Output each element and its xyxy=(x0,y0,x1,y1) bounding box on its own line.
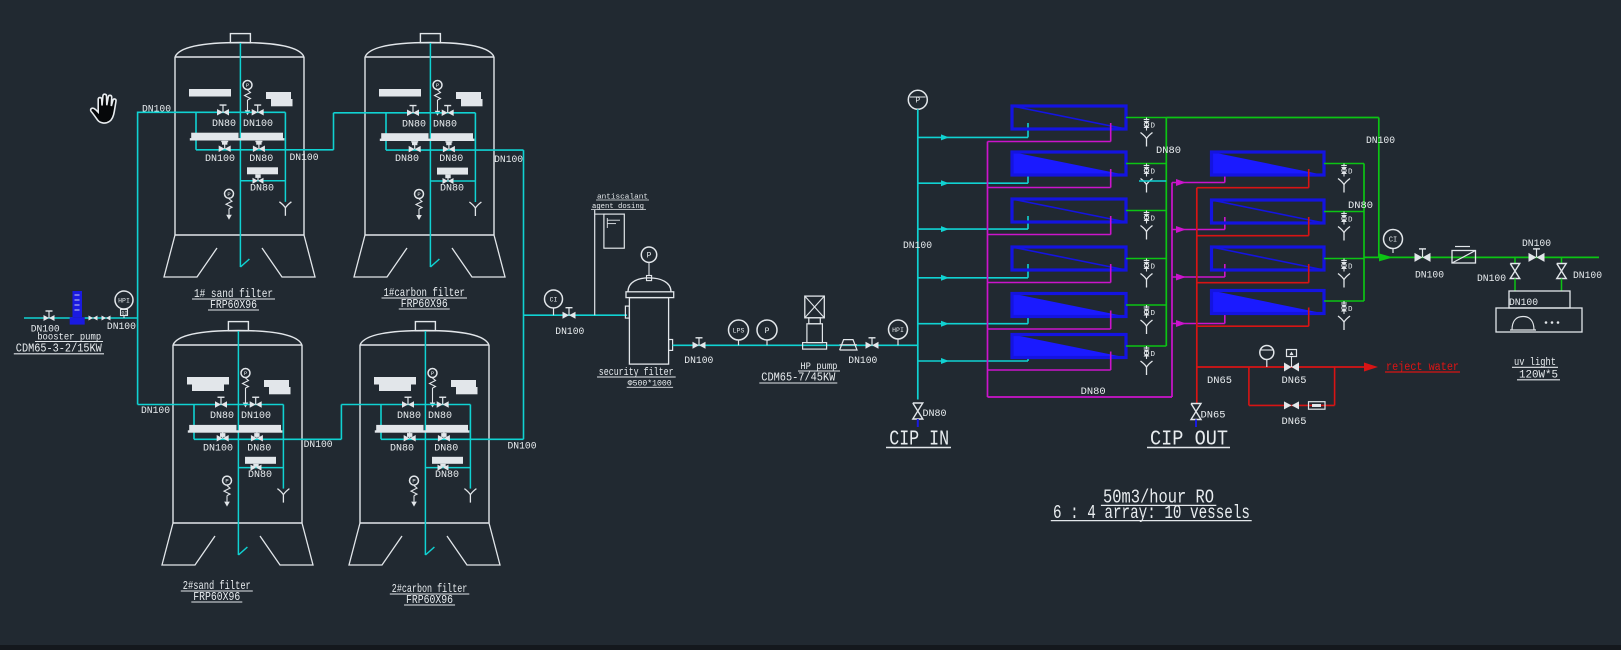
tank T2 shell xyxy=(420,34,440,43)
svg-text:HPI: HPI xyxy=(892,327,904,334)
tank T1 center pipe and drain xyxy=(239,43,241,267)
svg-text:LPS: LPS xyxy=(733,327,745,334)
tank T1 inlet stub xyxy=(138,111,196,113)
svg-text:DN80: DN80 xyxy=(428,411,452,422)
tank T2 inlet valve A xyxy=(407,110,413,117)
svg-text:DN80: DN80 xyxy=(1348,201,1373,212)
tank T3 bottom gauge xyxy=(223,476,232,485)
tank T1 lower line and valve xyxy=(241,180,286,182)
svg-text:DN80: DN80 xyxy=(434,443,458,454)
tank T2 center pipe and drain xyxy=(429,43,431,267)
svg-text:P: P xyxy=(227,191,230,198)
svg-text:D: D xyxy=(1151,351,1156,359)
tank T4 legs xyxy=(349,523,402,565)
booster pump P1 xyxy=(73,291,83,317)
svg-text:DN80: DN80 xyxy=(390,443,414,454)
tank T4 lower line and valve xyxy=(426,467,471,469)
tank T4 bottom gauge xyxy=(410,476,419,485)
dosing device xyxy=(604,214,624,248)
tank T4 outlet valve B xyxy=(438,435,444,442)
svg-text:DN100: DN100 xyxy=(1573,271,1602,282)
svg-text:P: P xyxy=(915,97,920,106)
uv feed valve left xyxy=(1510,264,1520,279)
tank T1 bottom gauge xyxy=(225,189,234,198)
magenta stage1 concentrate manifold xyxy=(987,142,989,398)
tank T2 outlet valve B xyxy=(443,146,449,153)
stage2 concentrate wrap R3 xyxy=(1308,264,1310,283)
gauge CI filter inlet xyxy=(545,290,563,308)
gauge P filter top xyxy=(641,247,656,262)
tank T2 legs xyxy=(354,235,407,277)
tank T1 distributor bars xyxy=(191,133,238,140)
bypass valve DN65 xyxy=(1284,401,1292,409)
tank T4 top gauge xyxy=(428,369,437,378)
tank T1 top gauge xyxy=(243,81,252,90)
tank T4 upper internals xyxy=(374,377,416,385)
RO vessel R1 xyxy=(1212,152,1325,175)
permeate stub L2 xyxy=(1126,163,1166,165)
svg-text:DN80: DN80 xyxy=(923,409,947,420)
svg-text:DN80: DN80 xyxy=(250,183,274,194)
tank T2 inlet valve B xyxy=(442,110,448,117)
valve DN100 top right xyxy=(1529,253,1537,262)
pipe T2 outlet to center header xyxy=(494,149,524,151)
svg-text:CI: CI xyxy=(1389,237,1397,245)
svg-text:D: D xyxy=(1348,306,1353,314)
CIP OUT valve xyxy=(1191,404,1201,420)
discharge valve xyxy=(102,316,107,321)
svg-text:P: P xyxy=(246,82,249,89)
svg-text:D: D xyxy=(1151,123,1156,131)
permeate manifold stage1 xyxy=(1165,118,1167,347)
hand cursor xyxy=(91,94,116,123)
feed stub 3 xyxy=(918,228,1028,230)
concentrate wrap L4 xyxy=(1110,264,1112,283)
svg-text:D: D xyxy=(1151,310,1156,318)
tank T2 distributor bars xyxy=(381,133,428,140)
tank T2 lower bar xyxy=(437,168,468,175)
svg-text:DN80: DN80 xyxy=(1156,146,1181,157)
RO vessel L5 xyxy=(1012,294,1126,317)
svg-text:P: P xyxy=(412,478,415,485)
sampling valve R1 xyxy=(1343,164,1345,167)
svg-text:P: P xyxy=(431,370,434,377)
pump check valve xyxy=(840,340,857,350)
tank T2 inlet loop piping xyxy=(386,112,475,114)
tank T4 inlet valve B xyxy=(437,401,443,408)
reject manifold vertical xyxy=(1196,188,1198,403)
flow indicator xyxy=(1452,251,1476,264)
svg-text:DN100: DN100 xyxy=(1366,136,1395,147)
svg-text:CI: CI xyxy=(550,296,558,303)
svg-text:DN100: DN100 xyxy=(290,153,319,164)
stage2 feed arrow 1 xyxy=(1172,182,1225,184)
uv branch left drop xyxy=(1514,257,1516,263)
tank T2 outlet valve A xyxy=(409,146,415,153)
svg-text:DN80: DN80 xyxy=(433,119,457,130)
svg-text:DN65: DN65 xyxy=(1207,376,1232,387)
discharge check valve xyxy=(89,316,94,321)
feed suction pipe xyxy=(24,317,73,319)
tank T3 distributor bars xyxy=(189,425,236,432)
tank T1 vent Y xyxy=(279,202,291,208)
tank T1 inlet valve A xyxy=(217,109,223,116)
permeate stub L4 xyxy=(1126,258,1166,260)
reject main line xyxy=(1197,366,1364,368)
reject control valve DN65 xyxy=(1284,363,1292,372)
concentrate wrap L3 xyxy=(1110,216,1112,235)
discharge pipe to riser xyxy=(85,317,138,319)
concentrate wrap L6 xyxy=(1110,352,1112,371)
svg-text:DN100: DN100 xyxy=(241,411,271,422)
tank T1 inlet loop piping xyxy=(196,111,285,113)
svg-text:DN100: DN100 xyxy=(142,105,171,116)
feed riser manifold xyxy=(137,112,139,405)
svg-text:P: P xyxy=(225,478,228,485)
tank T4 inlet loop piping xyxy=(381,404,470,406)
tank T2 top gauge xyxy=(433,81,442,90)
stage2 concentrate wrap R4 xyxy=(1308,308,1310,327)
svg-text:DN100: DN100 xyxy=(684,356,713,367)
permeate stub R4 xyxy=(1324,300,1364,302)
HP pump P2 xyxy=(805,296,825,318)
center header vertical xyxy=(523,150,525,439)
svg-text:D: D xyxy=(1151,264,1156,272)
sampling valve L2 xyxy=(1146,164,1148,167)
concentrate wrap L2 xyxy=(1110,169,1112,188)
sampling valve L3 xyxy=(1146,211,1148,214)
concentrate wrap L1 xyxy=(1110,123,1112,142)
svg-text:DN65: DN65 xyxy=(1282,376,1307,387)
feed stub 1 xyxy=(918,136,1028,138)
sampling valve L5 xyxy=(1146,305,1148,308)
RO vessel L1 xyxy=(1012,106,1126,129)
tank T3 inlet loop piping xyxy=(194,404,283,406)
svg-text:P: P xyxy=(647,252,652,261)
gauge P pump suction xyxy=(757,320,777,340)
svg-text:DN80: DN80 xyxy=(402,119,426,130)
svg-text:D: D xyxy=(1348,169,1353,177)
svg-text:DN100: DN100 xyxy=(848,356,877,367)
pipe T4 outlet to center header xyxy=(489,438,524,440)
stage2 feed arrow 4 xyxy=(1172,323,1225,325)
gauge HPI pump discharge xyxy=(889,320,908,339)
feed stub 6 xyxy=(918,360,1028,362)
svg-text:HPI: HPI xyxy=(118,297,130,304)
tank T3 inlet valve B xyxy=(250,401,256,408)
svg-text:DN80: DN80 xyxy=(397,411,421,422)
gauge P reject xyxy=(1260,346,1274,360)
stage2 concentrate wrap R2 xyxy=(1308,217,1310,236)
tank T3 inlet stub xyxy=(138,404,194,406)
permeate manifold stage2 xyxy=(1363,164,1365,302)
RO vessel L3 xyxy=(1012,199,1126,222)
uv feed valve right xyxy=(1557,264,1567,279)
pipe T1 outlet to T2 inlet xyxy=(304,149,334,151)
svg-text:D: D xyxy=(1151,216,1156,224)
permeate stub L5 xyxy=(1126,304,1166,306)
sampling valve L1 xyxy=(1146,118,1148,121)
svg-text:DN100: DN100 xyxy=(304,440,333,451)
pump discharge valve DN100 xyxy=(866,342,873,349)
svg-text:DN100: DN100 xyxy=(903,241,932,252)
product valve DN100 xyxy=(1415,253,1423,262)
svg-text:DN65: DN65 xyxy=(1282,417,1307,428)
stage2 concentrate wrap R1 xyxy=(1308,169,1310,188)
gauge P RO feed xyxy=(908,90,927,109)
RO vessel L2 xyxy=(1012,152,1126,175)
pipe T3 outlet to T4 inlet xyxy=(302,438,341,440)
tank T3 vent Y xyxy=(277,489,289,495)
svg-text:DN100: DN100 xyxy=(1522,239,1551,250)
tank T4 shell xyxy=(415,322,435,331)
permeate stub R2 xyxy=(1324,211,1364,213)
RO vessel L6 xyxy=(1012,335,1126,358)
tank T3 center pipe and drain xyxy=(237,331,239,555)
svg-text:DN80: DN80 xyxy=(249,154,273,165)
svg-text:P: P xyxy=(436,82,439,89)
pipe header to security filter xyxy=(524,314,628,316)
svg-text:DN80: DN80 xyxy=(439,154,463,165)
tank T3 legs xyxy=(162,523,215,565)
CIP IN valve xyxy=(913,403,923,419)
permeate stub L6 xyxy=(1126,345,1166,347)
svg-text:DN100: DN100 xyxy=(555,327,584,338)
svg-text:DN100: DN100 xyxy=(494,155,523,166)
concentrate wrap L5 xyxy=(1110,311,1112,330)
product line xyxy=(1364,256,1599,258)
tank T2 bottom gauge xyxy=(415,190,424,199)
tank T3 lower line and valve xyxy=(239,467,284,469)
security filter F1 xyxy=(628,278,671,292)
gauge CI product xyxy=(1384,230,1403,249)
RO feed header xyxy=(917,109,919,399)
svg-text:P: P xyxy=(765,327,770,336)
feed stub 4 xyxy=(918,277,1028,279)
suction valve xyxy=(44,315,50,321)
tank T4 vent Y xyxy=(464,489,476,495)
svg-text:DN80: DN80 xyxy=(440,184,464,195)
cyan CIP stub stage2 xyxy=(1139,180,1166,182)
uv branch right drop xyxy=(1561,257,1563,263)
bypass flow meter xyxy=(1309,402,1326,410)
svg-text:DN100: DN100 xyxy=(1477,274,1506,285)
svg-text:D: D xyxy=(1348,264,1353,272)
svg-text:DN100: DN100 xyxy=(203,443,233,454)
svg-text:DN100: DN100 xyxy=(141,406,170,417)
tank T4 inlet valve A xyxy=(402,401,408,408)
sampling valve R4 xyxy=(1343,301,1345,304)
svg-text:DN65: DN65 xyxy=(1201,411,1226,422)
tank T1 inlet valve B xyxy=(252,109,258,116)
svg-text:DN100: DN100 xyxy=(205,154,235,165)
dosing drop line xyxy=(594,210,596,315)
permeate stub L1 xyxy=(1126,117,1166,119)
tank T2 lower line and valve xyxy=(431,180,476,182)
permeate stub L3 xyxy=(1126,210,1166,212)
svg-text:D: D xyxy=(1151,169,1156,177)
permeate stub R1 xyxy=(1324,163,1364,165)
tank T3 outlet valve A xyxy=(217,435,223,442)
svg-text:DN100: DN100 xyxy=(107,322,136,333)
tank T1 legs xyxy=(164,235,217,277)
tank T1 lower bar xyxy=(247,167,278,174)
tank T4 center pipe and drain xyxy=(424,331,426,555)
permeate stub R3 xyxy=(1324,258,1364,260)
tank T4 distributor bars xyxy=(376,425,423,432)
tank T1 upper internals xyxy=(189,89,231,97)
gauge HPI booster xyxy=(115,291,133,309)
tank T3 inlet valve A xyxy=(215,401,221,408)
svg-text:DN80: DN80 xyxy=(435,470,459,481)
RO vessel R3 xyxy=(1212,247,1325,270)
svg-text:DN100: DN100 xyxy=(1415,271,1444,282)
tank T1 shell xyxy=(230,34,250,43)
stage2 feed arrow 2 xyxy=(1172,229,1225,231)
tank T3 upper internals xyxy=(187,377,229,385)
sampling valve R2 xyxy=(1343,212,1345,215)
svg-text:DN100: DN100 xyxy=(243,119,273,130)
filter outlet valve DN100 xyxy=(693,342,700,349)
sampling valve L6 xyxy=(1146,346,1148,349)
tank T4 outlet valve A xyxy=(404,435,410,442)
feed stub 2 xyxy=(918,182,1028,184)
tank T2 vent Y xyxy=(469,202,481,208)
pipe filter outlet xyxy=(673,344,918,346)
sampling valve R3 xyxy=(1343,259,1345,262)
filter inlet valve DN100 xyxy=(563,312,570,319)
reject bypass loop xyxy=(1248,367,1250,405)
stage2 feed arrow 3 xyxy=(1172,276,1225,278)
svg-text:DN100: DN100 xyxy=(508,442,537,453)
tank T3 shell xyxy=(228,322,248,331)
svg-text:DN80: DN80 xyxy=(248,470,272,481)
tank T3 top gauge xyxy=(241,369,250,378)
tank T2 upper internals xyxy=(379,89,421,97)
sampling valve L4 xyxy=(1146,259,1148,262)
RO vessel R4 xyxy=(1212,291,1325,314)
svg-text:D: D xyxy=(1348,217,1353,225)
svg-text:DN80: DN80 xyxy=(210,411,234,422)
uv light unit xyxy=(1509,291,1570,308)
permeate top run to product xyxy=(1166,117,1379,119)
svg-text:DN80: DN80 xyxy=(247,443,271,454)
RO vessel R2 xyxy=(1212,200,1325,223)
svg-text:DN80: DN80 xyxy=(1081,387,1106,398)
svg-text:DN80: DN80 xyxy=(395,154,419,165)
tank T3 lower bar xyxy=(245,457,276,464)
svg-text:P: P xyxy=(244,370,247,377)
tank T3 outlet valve B xyxy=(251,435,257,442)
tank T1 outlet valve B xyxy=(253,146,259,153)
svg-text:DN80: DN80 xyxy=(212,119,236,130)
gauge LPS xyxy=(729,320,749,340)
RO vessel L4 xyxy=(1012,247,1126,270)
svg-text:P: P xyxy=(417,191,420,198)
tank T1 outlet valve A xyxy=(219,146,225,153)
feed stub 5 xyxy=(918,323,1028,325)
tank T4 lower bar xyxy=(432,457,463,464)
